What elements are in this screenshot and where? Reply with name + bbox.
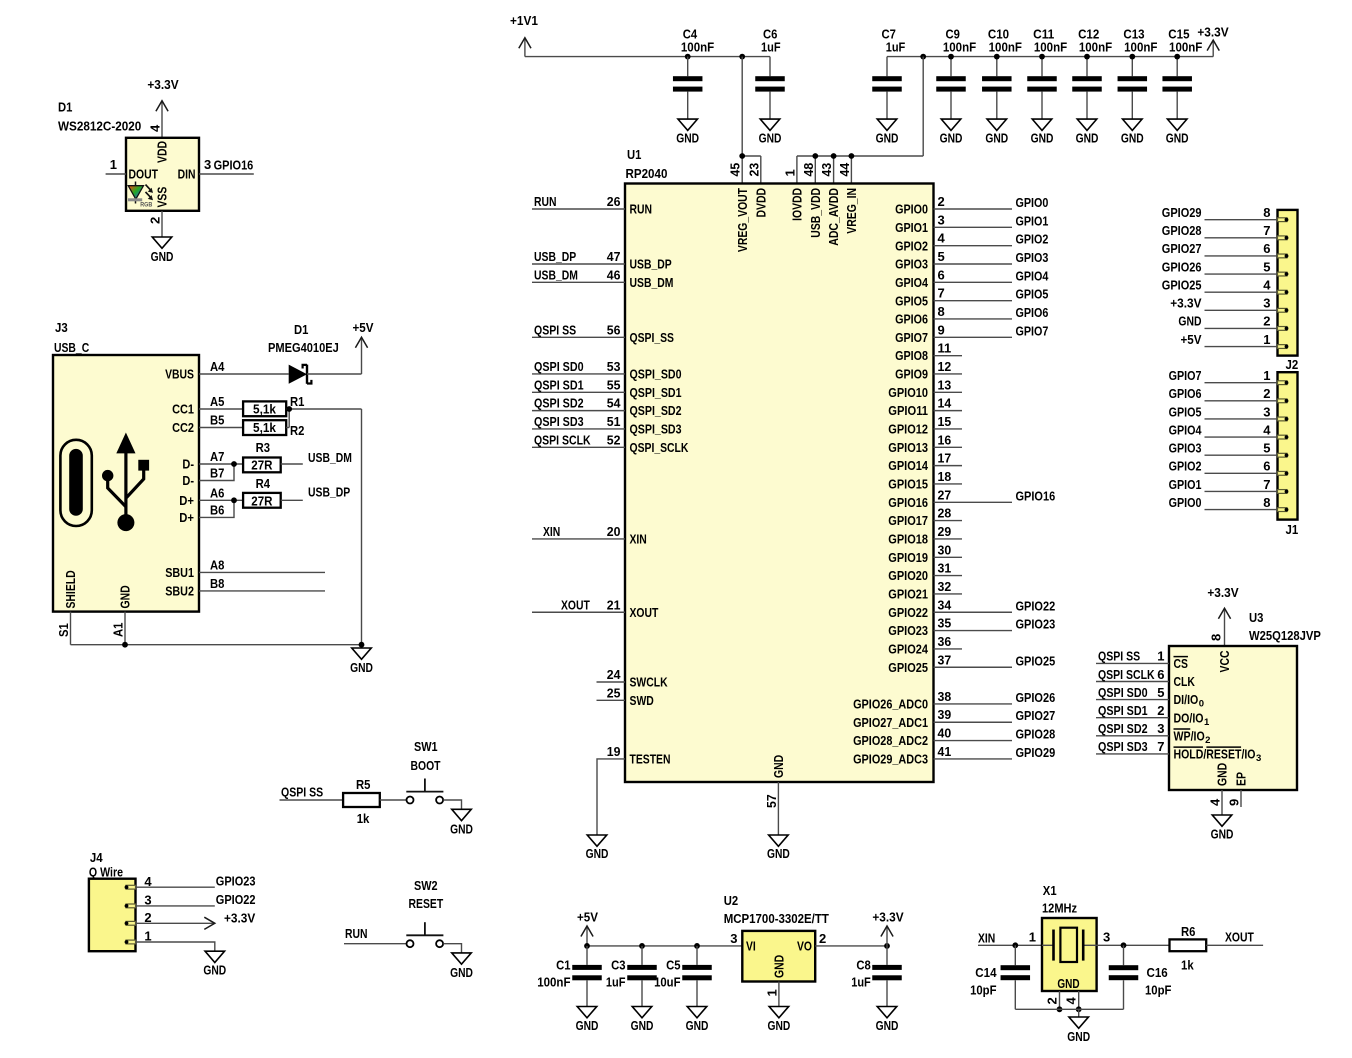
capacitor C1 100nF bbox=[537, 946, 602, 1007]
D1 pin 2 VSS wired to ground bbox=[148, 186, 170, 237]
U1 left pin 52 QSPI_SCLK with net label QSPI SCLK bbox=[532, 432, 689, 455]
svg-text:1uF: 1uF bbox=[606, 974, 626, 989]
svg-text:CC1: CC1 bbox=[172, 402, 194, 417]
U1 left pin 20 XIN with net label XIN bbox=[532, 524, 647, 547]
wire +3.3V rail bbox=[887, 56, 1213, 58]
svg-text:46: 46 bbox=[607, 267, 621, 282]
svg-text:D+: D+ bbox=[179, 493, 194, 508]
J3 pin A8 SBU1 stub bbox=[165, 557, 325, 580]
svg-text:J1: J1 bbox=[1286, 522, 1299, 537]
svg-text:1: 1 bbox=[110, 157, 117, 172]
power symbol +5V right of diode bbox=[307, 320, 374, 374]
svg-text:PMEG4010EJ: PMEG4010EJ bbox=[268, 340, 339, 355]
svg-text:A4: A4 bbox=[210, 359, 225, 374]
svg-text:5,1k: 5,1k bbox=[253, 420, 277, 435]
ground symbol below C6 bbox=[759, 119, 782, 145]
U2 pin 3 VI bbox=[730, 931, 756, 953]
svg-text:GPIO1: GPIO1 bbox=[1169, 477, 1202, 492]
U1 right pin 16 GPIO13 bbox=[888, 432, 962, 455]
svg-text:45: 45 bbox=[728, 163, 743, 177]
svg-text:2: 2 bbox=[1157, 703, 1164, 718]
svg-text:4: 4 bbox=[1263, 277, 1271, 292]
svg-text:47: 47 bbox=[607, 249, 621, 264]
svg-text:18: 18 bbox=[938, 469, 952, 484]
svg-text:GPIO0: GPIO0 bbox=[895, 202, 928, 217]
svg-text:MCP1700-3302E/TT: MCP1700-3302E/TT bbox=[724, 911, 829, 926]
U3 top pin 8 VCC bbox=[1209, 634, 1233, 673]
svg-text:A8: A8 bbox=[210, 557, 224, 572]
svg-text:VBUS: VBUS bbox=[165, 367, 194, 382]
ground symbol below C13 bbox=[1121, 119, 1144, 145]
svg-text:52: 52 bbox=[607, 432, 621, 447]
svg-text:U1: U1 bbox=[627, 147, 641, 162]
U1 right pin 6 GPIO4 with net label GPIO4 bbox=[895, 267, 1049, 290]
svg-text:XIN: XIN bbox=[543, 524, 560, 539]
J1 pin 8 net GPIO0 bbox=[1169, 495, 1289, 512]
svg-text:+1V1: +1V1 bbox=[510, 13, 538, 28]
U1 right pin 15 GPIO12 bbox=[888, 414, 962, 437]
svg-text:C14: C14 bbox=[975, 965, 997, 980]
svg-text:GPIO24: GPIO24 bbox=[888, 642, 928, 657]
svg-text:38: 38 bbox=[938, 689, 952, 704]
svg-text:29: 29 bbox=[938, 524, 952, 539]
svg-text:DIN: DIN bbox=[178, 167, 196, 182]
U1 right pin 37 GPIO25 with net label GPIO25 bbox=[888, 652, 1055, 675]
J3 pin A7 D- wired to resistor R3 bbox=[182, 449, 243, 472]
svg-text:100nF: 100nF bbox=[1169, 40, 1202, 55]
svg-text:VI: VI bbox=[746, 938, 756, 953]
capacitor C13 100nF bbox=[1118, 27, 1158, 120]
svg-text:100nF: 100nF bbox=[943, 40, 976, 55]
U1 left pin 21 XOUT with net label XOUT bbox=[532, 597, 658, 620]
power symbol +5V above C1 bbox=[577, 910, 598, 946]
svg-text:5: 5 bbox=[938, 249, 945, 264]
svg-text:48: 48 bbox=[801, 163, 816, 177]
ground symbol below U3 bbox=[1211, 815, 1234, 842]
wire J4 pin 4 net label GPIO23 bbox=[136, 874, 256, 889]
svg-text:QSPI SD1: QSPI SD1 bbox=[1098, 703, 1148, 718]
svg-text:6: 6 bbox=[1157, 667, 1164, 682]
J2 pin 6 net GPIO27 bbox=[1162, 241, 1289, 258]
regulator U2 MCP1700-3302E/TT body bbox=[724, 893, 829, 982]
svg-text:C8: C8 bbox=[856, 958, 870, 973]
wire +1V1 rail bbox=[525, 56, 770, 58]
svg-text:ADC_AVDD: ADC_AVDD bbox=[826, 188, 841, 246]
svg-text:GPIO18: GPIO18 bbox=[888, 532, 928, 547]
svg-text:RUN: RUN bbox=[630, 202, 653, 217]
U1 top pin 45 VREG_VOUT bbox=[728, 163, 750, 252]
svg-text:DVDD: DVDD bbox=[753, 188, 768, 218]
svg-text:GPIO29: GPIO29 bbox=[1016, 745, 1056, 760]
svg-text:GPIO29: GPIO29 bbox=[1162, 205, 1202, 220]
svg-text:1uF: 1uF bbox=[886, 40, 906, 55]
svg-text:USB_DM: USB_DM bbox=[308, 450, 352, 465]
svg-text:SHIELD: SHIELD bbox=[63, 570, 78, 608]
svg-text:GND: GND bbox=[1215, 763, 1230, 786]
svg-text:GPIO16: GPIO16 bbox=[1016, 488, 1056, 503]
svg-text:R4: R4 bbox=[256, 476, 271, 491]
svg-text:GPIO5: GPIO5 bbox=[895, 293, 928, 308]
svg-text:R1: R1 bbox=[290, 394, 304, 409]
U1 right pin 38 GPIO26_ADC0 with net label GPIO26 bbox=[853, 689, 1055, 712]
svg-text:GPIO10: GPIO10 bbox=[888, 385, 928, 400]
power symbol +3.3V top right bbox=[1197, 24, 1229, 56]
J3 pin A5 CC1 wired to resistor R1 bbox=[172, 394, 243, 417]
wire crystal ground rail bbox=[1015, 1009, 1123, 1017]
svg-text:25: 25 bbox=[607, 685, 621, 700]
svg-text:DOUT: DOUT bbox=[129, 167, 159, 182]
svg-text:QSPI SS: QSPI SS bbox=[281, 785, 323, 800]
svg-text:A6: A6 bbox=[210, 485, 224, 500]
svg-text:5,1k: 5,1k bbox=[253, 402, 277, 417]
ground symbol below TESTEN bbox=[586, 835, 609, 861]
U1 left pin 47 USB_DP with net label USB_DP bbox=[532, 249, 672, 272]
ground symbol below U2 bbox=[768, 1007, 791, 1034]
svg-text:D-: D- bbox=[182, 457, 194, 472]
junction on +3.3V rail at C12 bbox=[1084, 54, 1090, 60]
capacitor C11 100nF bbox=[1027, 27, 1067, 120]
svg-text:31: 31 bbox=[938, 561, 952, 576]
svg-text:QSPI SD1: QSPI SD1 bbox=[534, 377, 584, 392]
svg-text:1: 1 bbox=[764, 989, 779, 996]
svg-text:BOOT: BOOT bbox=[411, 758, 441, 773]
U2 pin 2 VO bbox=[797, 931, 826, 953]
J2 pin 1 net +5V bbox=[1181, 332, 1289, 349]
svg-text:GPIO0: GPIO0 bbox=[1016, 195, 1049, 210]
J1 pin 7 net GPIO1 bbox=[1169, 477, 1289, 494]
svg-text:SW2: SW2 bbox=[414, 878, 438, 893]
svg-text:RUN: RUN bbox=[534, 194, 557, 209]
svg-text:2: 2 bbox=[1263, 386, 1270, 401]
capacitor C3 1uF bbox=[606, 946, 657, 1007]
svg-text:51: 51 bbox=[607, 414, 621, 429]
svg-text:C5: C5 bbox=[666, 958, 680, 973]
svg-text:SWCLK: SWCLK bbox=[630, 675, 669, 690]
svg-text:3: 3 bbox=[204, 157, 211, 172]
svg-text:3: 3 bbox=[1263, 296, 1270, 311]
capacitor C5 10uF bbox=[654, 946, 712, 1007]
svg-text:100nF: 100nF bbox=[681, 40, 714, 55]
svg-text:37: 37 bbox=[938, 652, 952, 667]
ground symbol below C10 bbox=[985, 119, 1008, 145]
svg-text:1k: 1k bbox=[357, 811, 370, 826]
junction on +1V1 rail at VREG_VOUT drop bbox=[739, 54, 745, 60]
svg-text:1: 1 bbox=[1263, 332, 1270, 347]
svg-text:GND: GND bbox=[450, 965, 473, 980]
svg-text:GND: GND bbox=[586, 846, 609, 861]
U1 right pin 27 GPIO16 with net label GPIO16 bbox=[888, 487, 1055, 510]
svg-text:GPIO23: GPIO23 bbox=[216, 874, 256, 889]
J1 pin 4 net GPIO4 bbox=[1169, 422, 1289, 439]
D1 pin 3 DIN with net label GPIO16 bbox=[178, 157, 254, 182]
svg-text:14: 14 bbox=[938, 396, 952, 411]
svg-text:GND: GND bbox=[450, 821, 473, 836]
svg-text:QSPI SD0: QSPI SD0 bbox=[1098, 685, 1148, 700]
svg-text:+5V: +5V bbox=[1181, 332, 1202, 347]
U3 left pin 5 DI/IO with net label QSPI SD0 bbox=[1096, 685, 1204, 710]
crystal X1 12MHz body bbox=[1042, 883, 1097, 991]
svg-text:57: 57 bbox=[764, 794, 779, 808]
U3 left pin 6 CLK with net label QSPI SCLK bbox=[1096, 667, 1195, 689]
svg-text:3: 3 bbox=[730, 931, 737, 946]
svg-text:GPIO14: GPIO14 bbox=[888, 458, 928, 473]
J3 pin B7 D- bbox=[182, 461, 237, 488]
svg-text:GPIO26_ADC0: GPIO26_ADC0 bbox=[853, 697, 928, 712]
svg-text:USB_DP: USB_DP bbox=[534, 249, 576, 264]
svg-text:QSPI_SS: QSPI_SS bbox=[630, 330, 675, 345]
svg-text:XOUT: XOUT bbox=[1225, 930, 1254, 945]
svg-text:GPIO3: GPIO3 bbox=[1016, 250, 1049, 265]
svg-text:GND: GND bbox=[631, 1018, 654, 1033]
svg-text:12MHz: 12MHz bbox=[1042, 900, 1078, 915]
svg-text:GPIO27_ADC1: GPIO27_ADC1 bbox=[853, 715, 928, 730]
svg-text:VREG_IN: VREG_IN bbox=[844, 188, 859, 234]
svg-text:4: 4 bbox=[148, 124, 163, 132]
svg-text:100nF: 100nF bbox=[1034, 40, 1067, 55]
svg-text:3: 3 bbox=[1256, 753, 1261, 764]
svg-text:SBU2: SBU2 bbox=[165, 583, 194, 598]
svg-text:4: 4 bbox=[1208, 798, 1223, 806]
svg-text:QSPI_SD2: QSPI_SD2 bbox=[630, 403, 682, 418]
svg-text:GPIO1: GPIO1 bbox=[1016, 213, 1049, 228]
power symbol +1V1 bbox=[510, 13, 538, 57]
svg-text:GPIO1: GPIO1 bbox=[895, 220, 928, 235]
svg-text:USB_VDD: USB_VDD bbox=[808, 188, 823, 238]
svg-text:6: 6 bbox=[938, 267, 945, 282]
svg-text:QSPI SD2: QSPI SD2 bbox=[534, 396, 584, 411]
svg-text:2: 2 bbox=[148, 217, 163, 224]
svg-text:GND: GND bbox=[771, 755, 786, 778]
svg-text:D1: D1 bbox=[58, 100, 72, 115]
svg-text:CLK: CLK bbox=[1174, 674, 1196, 689]
capacitor C12 100nF bbox=[1072, 27, 1112, 120]
U1 left pin 54 QSPI_SD2 with net label QSPI SD2 bbox=[532, 396, 682, 419]
svg-text:QSPI SD3: QSPI SD3 bbox=[1098, 739, 1148, 754]
svg-text:0: 0 bbox=[1199, 699, 1204, 710]
U1 right pin 9 GPIO7 with net label GPIO7 bbox=[895, 322, 1048, 345]
svg-text:USB_DP: USB_DP bbox=[308, 485, 350, 500]
svg-text:43: 43 bbox=[819, 163, 834, 177]
svg-text:41: 41 bbox=[938, 744, 952, 759]
U3 left pin 7 HOLD/RESET/IO with net label QSPI SD3 bbox=[1096, 739, 1261, 764]
net label XIN wire to crystal bbox=[978, 930, 1042, 948]
svg-text:GPIO28_ADC2: GPIO28_ADC2 bbox=[853, 733, 928, 748]
svg-text:QSPI_SD0: QSPI_SD0 bbox=[630, 367, 682, 382]
svg-text:HOLD/RESET/IO: HOLD/RESET/IO bbox=[1174, 747, 1256, 762]
svg-text:GPIO7: GPIO7 bbox=[1169, 368, 1202, 383]
svg-text:R3: R3 bbox=[256, 440, 270, 455]
svg-text:GPIO26: GPIO26 bbox=[1162, 259, 1202, 274]
svg-text:QSPI_SCLK: QSPI_SCLK bbox=[630, 440, 689, 455]
svg-text:GPIO28: GPIO28 bbox=[1016, 727, 1056, 742]
U1 right pin 32 GPIO21 bbox=[888, 579, 962, 602]
power symbol +3.3V above C8 bbox=[872, 910, 904, 946]
svg-text:36: 36 bbox=[938, 634, 952, 649]
svg-text:GND: GND bbox=[759, 130, 782, 145]
svg-text:GND: GND bbox=[1121, 130, 1144, 145]
svg-text:10uF: 10uF bbox=[654, 974, 680, 989]
ground symbol below J3 bbox=[350, 648, 373, 675]
svg-text:1: 1 bbox=[1157, 649, 1164, 664]
svg-text:7: 7 bbox=[1263, 223, 1270, 238]
J2 pin 7 net GPIO28 bbox=[1162, 223, 1289, 240]
svg-text:23: 23 bbox=[746, 163, 761, 177]
svg-text:WS2812C-2020: WS2812C-2020 bbox=[58, 119, 141, 134]
svg-text:100nF: 100nF bbox=[1079, 40, 1112, 55]
svg-text:GND: GND bbox=[876, 130, 899, 145]
svg-text:GND: GND bbox=[1031, 130, 1054, 145]
ground symbol below C1 bbox=[576, 1007, 599, 1034]
net label QSPI SS wire to R5 bbox=[280, 785, 344, 801]
U1 left pin 56 QSPI_SS with net label QSPI SS bbox=[532, 322, 674, 345]
svg-text:11: 11 bbox=[938, 341, 952, 356]
svg-text:VREG_VOUT: VREG_VOUT bbox=[735, 188, 750, 252]
connector J4 Q Wire body bbox=[89, 850, 136, 951]
svg-text:7: 7 bbox=[938, 286, 945, 301]
U1 right pin 12 GPIO9 bbox=[895, 359, 962, 382]
U1 right pin 5 GPIO3 with net label GPIO3 bbox=[895, 249, 1048, 272]
svg-text:GPIO8: GPIO8 bbox=[895, 348, 928, 363]
svg-text:6: 6 bbox=[1263, 241, 1270, 256]
wire crystal pin 3 to R6 with junction to C16 bbox=[1097, 942, 1170, 948]
svg-text:XOUT: XOUT bbox=[561, 597, 590, 612]
svg-text:GPIO25: GPIO25 bbox=[1016, 653, 1056, 668]
svg-text:15: 15 bbox=[938, 414, 952, 429]
ground symbol below C15 bbox=[1166, 119, 1189, 145]
X1 pin 3 bbox=[1103, 930, 1110, 945]
svg-text:27: 27 bbox=[938, 487, 952, 502]
svg-text:WP/IO: WP/IO bbox=[1174, 728, 1205, 743]
U3 left pin 3 WP/IO with net label QSPI SD2 bbox=[1096, 721, 1210, 746]
svg-text:GPIO11: GPIO11 bbox=[888, 403, 928, 418]
U1 top pin 1 IOVDD bbox=[782, 169, 804, 221]
svg-text:35: 35 bbox=[938, 616, 952, 631]
svg-text:R6: R6 bbox=[1181, 924, 1195, 939]
svg-text:GND: GND bbox=[203, 963, 226, 978]
U1 right pin 11 GPIO8 bbox=[895, 341, 962, 364]
junction +3.3V rail at IOVDD drop bbox=[920, 54, 926, 60]
svg-text:GPIO9: GPIO9 bbox=[895, 367, 928, 382]
svg-text:2: 2 bbox=[938, 194, 945, 209]
svg-text:GPIO7: GPIO7 bbox=[1016, 323, 1049, 338]
svg-text:3: 3 bbox=[1263, 404, 1270, 419]
svg-text:C16: C16 bbox=[1147, 965, 1168, 980]
svg-text:4: 4 bbox=[1263, 422, 1271, 437]
U3 left pin 1 CS with net label QSPI SS bbox=[1096, 649, 1188, 671]
U1 right pin 2 GPIO0 with net label GPIO0 bbox=[895, 194, 1048, 217]
svg-text:VSS: VSS bbox=[155, 186, 170, 207]
svg-text:GND: GND bbox=[771, 955, 786, 978]
svg-text:GND: GND bbox=[576, 1018, 599, 1033]
wire J4 pin 3 net label GPIO22 bbox=[136, 892, 256, 907]
svg-text:1: 1 bbox=[782, 169, 797, 176]
junction on +3.3V rail at C10 bbox=[994, 54, 1000, 60]
J2 pin 5 net GPIO26 bbox=[1162, 259, 1289, 276]
U1 left pin 25 SWD bbox=[597, 685, 654, 708]
power symbol +3.3V above U3 bbox=[1207, 585, 1239, 646]
svg-text:X1: X1 bbox=[1043, 883, 1057, 898]
svg-text:54: 54 bbox=[607, 396, 621, 411]
svg-text:12: 12 bbox=[938, 359, 952, 374]
svg-text:D-: D- bbox=[182, 473, 194, 488]
svg-text:GPIO19: GPIO19 bbox=[888, 550, 928, 565]
J3 pin B6 D+ bbox=[179, 497, 237, 525]
svg-text:B5: B5 bbox=[210, 413, 224, 428]
U1 left pin 51 QSPI_SD3 with net label QSPI SD3 bbox=[532, 414, 682, 437]
svg-text:GND: GND bbox=[118, 585, 133, 608]
wire U2 VO to +3.3V bbox=[815, 943, 890, 949]
svg-text:100nF: 100nF bbox=[537, 974, 570, 989]
J4 pin 3 bbox=[125, 893, 152, 908]
svg-text:24: 24 bbox=[607, 667, 621, 682]
wire from R1/R2 to ground rail bbox=[286, 406, 361, 645]
svg-text:GPIO29_ADC3: GPIO29_ADC3 bbox=[853, 752, 928, 767]
svg-text:4: 4 bbox=[1064, 997, 1079, 1005]
svg-text:B8: B8 bbox=[210, 576, 224, 591]
U1 bottom pin 57 GND wired to ground bbox=[764, 755, 786, 835]
svg-text:USB_C: USB_C bbox=[54, 340, 90, 355]
svg-text:GND: GND bbox=[151, 249, 174, 264]
svg-text:GPIO4: GPIO4 bbox=[1169, 422, 1203, 437]
svg-text:+3.3V: +3.3V bbox=[224, 910, 256, 925]
svg-text:W25Q128JVP: W25Q128JVP bbox=[1249, 628, 1321, 643]
svg-text:17: 17 bbox=[938, 451, 952, 466]
wire +5V rail to U2 VI bbox=[584, 943, 742, 949]
wire SW1 to ground bbox=[443, 800, 461, 809]
svg-text:CS: CS bbox=[1174, 656, 1189, 671]
U3 bottom pin 4 GND wired to ground bbox=[1208, 763, 1230, 815]
svg-text:XOUT: XOUT bbox=[630, 605, 659, 620]
U1 right pin 28 GPIO17 bbox=[888, 506, 962, 529]
svg-text:2: 2 bbox=[819, 931, 826, 946]
svg-text:5: 5 bbox=[1263, 259, 1270, 274]
svg-text:GND: GND bbox=[1076, 130, 1099, 145]
svg-text:2: 2 bbox=[1205, 735, 1210, 746]
svg-text:QSPI_SD3: QSPI_SD3 bbox=[630, 422, 682, 437]
U1 top pin 23 DVDD bbox=[746, 163, 768, 218]
svg-text:B6: B6 bbox=[210, 502, 224, 517]
J3 pin B5 CC2 wired to resistor R2 bbox=[172, 413, 243, 436]
U1 right pin 35 GPIO23 with net label GPIO23 bbox=[888, 616, 1055, 639]
ground symbol below X1 bbox=[1067, 1017, 1090, 1044]
svg-text:RGB: RGB bbox=[140, 202, 152, 209]
svg-text:GND: GND bbox=[1211, 827, 1234, 842]
svg-text:GND: GND bbox=[940, 130, 963, 145]
svg-text:EP: EP bbox=[1234, 772, 1249, 786]
U1 right pin 18 GPIO15 bbox=[888, 469, 962, 492]
svg-text:30: 30 bbox=[938, 542, 952, 557]
svg-text:1: 1 bbox=[1204, 717, 1210, 728]
X1 pin 4 to ground rail bbox=[1064, 991, 1082, 1012]
svg-text:3: 3 bbox=[938, 212, 945, 227]
U1 left pin 53 QSPI_SD0 with net label QSPI SD0 bbox=[532, 359, 682, 382]
svg-text:9: 9 bbox=[938, 322, 945, 337]
net label RUN wire to SW2 bbox=[344, 926, 406, 944]
svg-text:19: 19 bbox=[607, 744, 621, 759]
ground symbol below C5 bbox=[686, 1007, 709, 1034]
svg-text:GPIO3: GPIO3 bbox=[1169, 441, 1202, 456]
svg-text:55: 55 bbox=[607, 377, 621, 392]
svg-text:U3: U3 bbox=[1249, 610, 1263, 625]
wire J4 pin 1 to ground bbox=[136, 942, 215, 951]
svg-text:3: 3 bbox=[1103, 930, 1110, 945]
svg-text:GPIO6: GPIO6 bbox=[1016, 305, 1049, 320]
U1 left pin 24 SWCLK bbox=[597, 667, 669, 690]
capacitor C10 100nF bbox=[982, 27, 1022, 120]
svg-text:QSPI SS: QSPI SS bbox=[534, 322, 576, 337]
U1 left pin 55 QSPI_SD1 with net label QSPI SD1 bbox=[532, 377, 682, 400]
svg-text:GND: GND bbox=[676, 130, 699, 145]
